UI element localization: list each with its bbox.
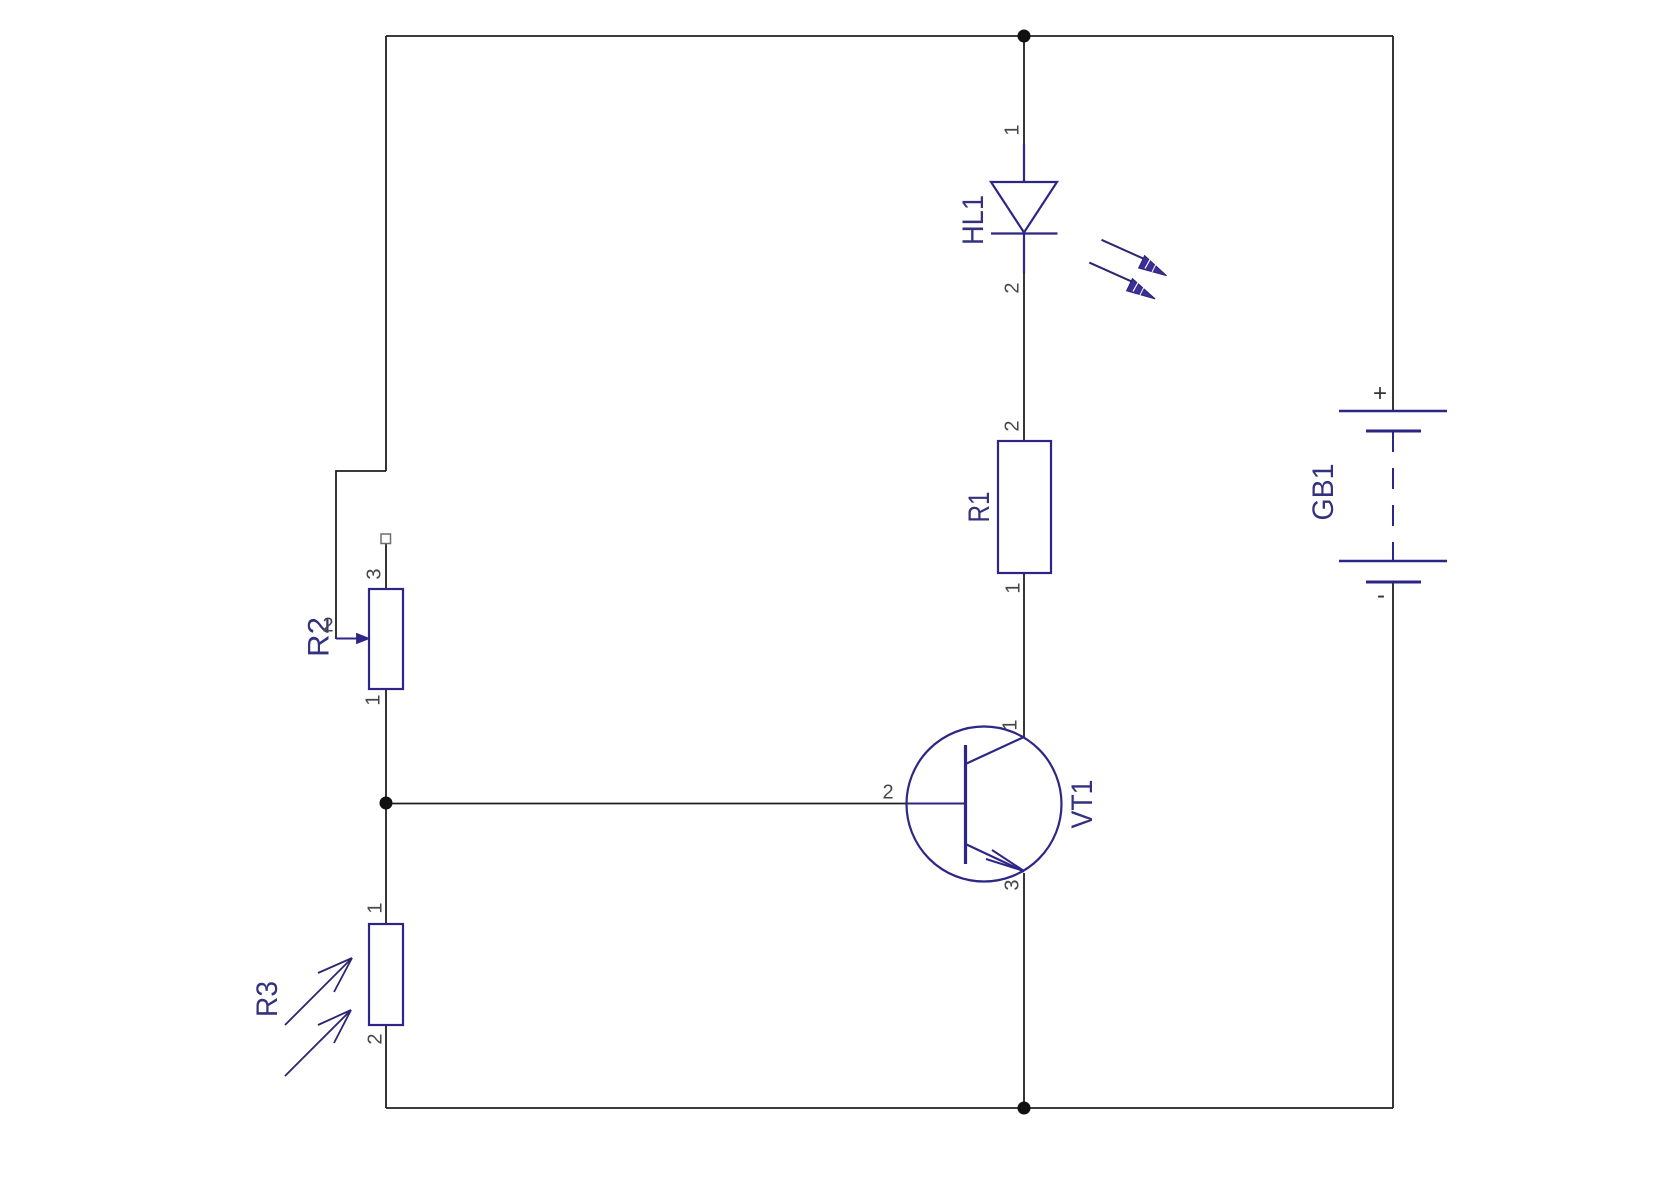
wire top rail — [386, 35, 1393, 37]
wire collector up to R1 — [1023, 573, 1025, 736]
svg-text:3: 3 — [363, 568, 385, 579]
svg-text:2: 2 — [1001, 420, 1023, 431]
junction node bottom — [1018, 1102, 1031, 1115]
HL1 light arrow lower — [1089, 263, 1155, 299]
wire left upper — [385, 36, 387, 471]
resistor R1 — [998, 441, 1051, 573]
svg-text:3: 3 — [1001, 879, 1023, 890]
wire right upper — [1392, 36, 1394, 411]
battery GB1 — [1339, 411, 1447, 582]
wire jog to wiper — [336, 471, 386, 639]
svg-text:1: 1 — [1002, 582, 1024, 593]
LED HL1 — [991, 144, 1058, 274]
R2 pin 3 open terminal square — [381, 534, 391, 544]
HL1 light arrow upper — [1102, 240, 1167, 276]
svg-text:1: 1 — [1001, 124, 1023, 135]
svg-text:GB1: GB1 — [1307, 464, 1340, 521]
svg-text:1: 1 — [999, 719, 1021, 730]
junction node top — [1018, 30, 1031, 43]
photoresistor R3 — [369, 924, 403, 1025]
wire right lower — [1392, 582, 1394, 1108]
svg-text:-: - — [1377, 582, 1385, 609]
transistor VT1 — [906, 727, 1062, 882]
wire emitter down — [1023, 873, 1025, 1108]
svg-text:VT1: VT1 — [1066, 780, 1099, 829]
wire R2 pin3 stub — [385, 543, 387, 589]
wire bottom rail — [386, 1107, 1393, 1109]
svg-text:HL1: HL1 — [957, 195, 990, 245]
svg-text:1: 1 — [364, 902, 386, 913]
wire node A to R3 pin1 — [385, 803, 387, 924]
svg-text:R3: R3 — [251, 981, 284, 1017]
wire R2 pin1 to node A — [385, 689, 387, 803]
svg-text:1: 1 — [362, 694, 384, 705]
junction node A — [380, 797, 393, 810]
wire R3 pin2 down — [385, 1025, 387, 1108]
wire base (node A to VT1 base) — [386, 803, 906, 805]
R2 wiper arrow — [336, 633, 370, 643]
potentiometer R2 — [369, 589, 403, 689]
svg-text:2: 2 — [882, 781, 893, 803]
wire HL1 pin1 up — [1023, 36, 1025, 144]
svg-text:+: + — [1373, 380, 1387, 407]
svg-text:R1: R1 — [963, 492, 996, 523]
R3 light arrow lower — [285, 1010, 351, 1076]
wire R1 pin2 to HL1 — [1023, 274, 1025, 441]
VT1 emitter arrow — [986, 850, 1024, 871]
svg-text:2: 2 — [364, 1033, 386, 1044]
svg-text:2: 2 — [1001, 282, 1023, 293]
R3 light arrow upper — [285, 958, 352, 1025]
svg-text:2: 2 — [322, 614, 333, 636]
